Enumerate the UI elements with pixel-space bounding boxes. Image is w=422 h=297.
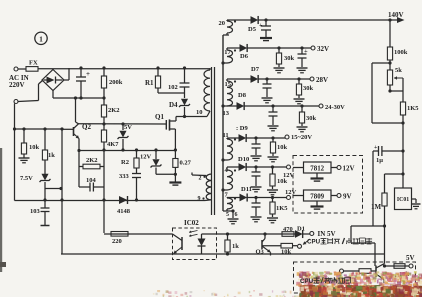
svg-text:30k: 30k [303, 85, 314, 92]
svg-text:5V: 5V [124, 124, 132, 131]
svg-text:D5: D5 [248, 26, 257, 33]
svg-text:D6: D6 [240, 53, 249, 60]
svg-text:R1: R1 [145, 79, 154, 87]
svg-text:+: + [304, 48, 308, 55]
svg-text:1μ: 1μ [376, 157, 383, 164]
svg-text:D11: D11 [241, 186, 252, 193]
svg-text:10k: 10k [277, 144, 288, 151]
svg-text:30k: 30k [306, 115, 317, 122]
svg-text:102: 102 [168, 84, 178, 91]
svg-text:24-30V: 24-30V [325, 104, 345, 111]
svg-text:2K2: 2K2 [86, 157, 98, 164]
svg-text:1k: 1k [232, 243, 239, 250]
svg-text:IC01: IC01 [397, 197, 409, 203]
svg-text:12V: 12V [343, 165, 355, 173]
svg-text:6: 6 [235, 212, 238, 218]
svg-text:R2: R2 [121, 159, 129, 166]
svg-text:1: 1 [39, 35, 43, 44]
svg-text:IN 5V: IN 5V [318, 230, 336, 238]
svg-text:15~20V: 15~20V [291, 134, 312, 141]
svg-text:CPU: CPU [300, 278, 314, 285]
svg-text:1K5: 1K5 [276, 205, 288, 212]
svg-text:4148: 4148 [117, 208, 131, 215]
svg-text:IC02: IC02 [184, 219, 199, 227]
svg-text:333: 333 [119, 173, 130, 180]
svg-text:140V: 140V [388, 11, 404, 19]
svg-text:10k: 10k [281, 249, 292, 256]
svg-text:4K7: 4K7 [107, 141, 119, 148]
svg-text:1k: 1k [48, 152, 55, 159]
svg-text:28V: 28V [316, 76, 328, 84]
svg-text:32V: 32V [317, 45, 329, 53]
svg-text:Q1: Q1 [155, 113, 164, 121]
svg-text:5: 5 [226, 212, 229, 218]
svg-text:2K2: 2K2 [108, 107, 120, 114]
svg-text:5V: 5V [406, 254, 415, 262]
svg-text:D10: D10 [238, 156, 249, 163]
svg-text:Q3: Q3 [256, 249, 265, 256]
svg-text:200k: 200k [109, 79, 123, 86]
svg-text:100k: 100k [394, 49, 408, 56]
svg-text:: D9: : D9 [236, 125, 248, 132]
svg-text:220V: 220V [9, 81, 25, 89]
svg-text:2: 2 [199, 176, 202, 182]
svg-text:D8: D8 [238, 92, 247, 99]
svg-text:9V: 9V [343, 193, 352, 201]
svg-text:D1: D1 [297, 226, 305, 233]
svg-text:10: 10 [196, 109, 203, 116]
svg-text:7812: 7812 [310, 166, 324, 173]
svg-text:FX: FX [29, 60, 38, 67]
svg-text:1M: 1M [371, 203, 382, 211]
svg-text:+: + [374, 145, 378, 151]
svg-text:D4: D4 [169, 101, 178, 109]
svg-text:D7: D7 [251, 66, 260, 73]
svg-text:12V: 12V [140, 154, 152, 161]
svg-text:13: 13 [223, 110, 230, 117]
svg-text:104: 104 [86, 177, 97, 184]
svg-text:7809: 7809 [310, 194, 324, 201]
svg-text:5k: 5k [395, 67, 402, 74]
svg-text:0.27: 0.27 [180, 160, 192, 167]
svg-text:+: + [259, 23, 263, 29]
svg-text:9: 9 [198, 196, 201, 202]
svg-text:10k: 10k [277, 178, 288, 185]
svg-text:103: 103 [30, 208, 41, 215]
svg-text:1K5: 1K5 [407, 105, 419, 112]
svg-text:220: 220 [112, 238, 122, 245]
svg-text:10k: 10k [29, 144, 40, 151]
svg-text:7.5V: 7.5V [20, 175, 33, 182]
svg-text:+: + [86, 70, 90, 78]
svg-text:30k: 30k [284, 55, 295, 62]
svg-text:20: 20 [219, 20, 226, 27]
